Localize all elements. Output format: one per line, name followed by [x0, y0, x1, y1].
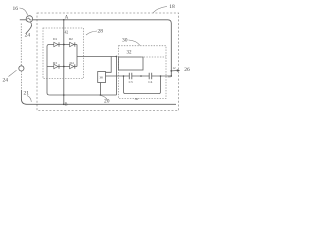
junction dot top row	[63, 44, 65, 46]
svg-text:42: 42	[65, 31, 69, 35]
svg-text:32: 32	[127, 51, 133, 56]
caps row wire	[106, 75, 172, 77]
svg-text:D3: D3	[53, 61, 57, 65]
dashed left conductor 24	[20, 24, 22, 66]
svg-text:D4: D4	[70, 61, 74, 65]
wire stub left of terminal	[20, 19, 26, 21]
svg-text:38: 38	[99, 76, 103, 80]
svg-text:21: 21	[24, 91, 30, 97]
junction dot on return wire	[63, 94, 65, 96]
top wire from terminal to right side, down to output	[33, 20, 172, 76]
svg-text:C3: C3	[129, 80, 133, 84]
svg-text:28: 28	[98, 29, 104, 35]
output lead with arrow 26	[171, 70, 177, 72]
leader for 21	[27, 96, 31, 102]
leader for 16	[20, 8, 28, 15]
diode D4	[70, 64, 74, 68]
return loop below filter caps	[124, 76, 161, 94]
leader for 28	[86, 31, 97, 35]
wire from small box top to mid tap	[106, 57, 112, 73]
vertical wire right of rectifier	[116, 57, 118, 96]
svg-text:26: 26	[184, 67, 190, 73]
AC input terminal circle 16	[26, 16, 32, 22]
dashed partition line in box 30	[141, 56, 166, 58]
svg-text:A: A	[65, 15, 69, 20]
leader for lower-left label	[9, 70, 17, 76]
svg-text:C4: C4	[148, 80, 152, 84]
svg-text:B: B	[65, 102, 68, 107]
second terminal circle	[19, 66, 24, 71]
capacitor C4	[149, 73, 152, 79]
wire from small box bottom to return wire	[99, 83, 101, 96]
leader for 30	[129, 40, 141, 45]
sine mark inside terminal	[28, 18, 32, 20]
svg-text:24: 24	[25, 32, 31, 38]
svg-text:18: 18	[169, 4, 175, 10]
control block small box	[98, 72, 106, 83]
node A junction dot	[63, 19, 65, 21]
center vertical wire A to B	[63, 20, 65, 105]
junction dot tap	[160, 75, 162, 77]
svg-text:36: 36	[135, 97, 139, 101]
junction dot bottom row	[63, 66, 65, 68]
bridge bottom row wire	[47, 66, 77, 68]
arrowhead	[177, 69, 180, 72]
svg-text:16: 16	[13, 6, 19, 12]
diode D3	[54, 64, 58, 68]
inner dashed rectifier box 28	[43, 28, 84, 79]
bottom rail wire	[21, 90, 176, 104]
left conductor below terminal	[20, 71, 22, 90]
junction dot loop left	[123, 75, 125, 77]
junction dot output wire	[171, 75, 173, 77]
svg-text:D1: D1	[53, 37, 57, 41]
leader for 20	[101, 96, 107, 100]
bridge left branch	[47, 45, 49, 96]
solid box 32	[119, 57, 144, 70]
outer dashed enclosure 18	[37, 13, 179, 111]
junction dot mid tap	[116, 56, 118, 58]
svg-text:30: 30	[122, 38, 128, 44]
node B junction dot	[63, 103, 65, 105]
wire curve from terminal down to left conductor	[26, 22, 31, 33]
diode D2	[70, 42, 74, 46]
junction dot small box bottom	[100, 94, 102, 96]
bridge right branch	[76, 45, 78, 67]
capacitor C3	[129, 73, 132, 79]
output junction dot	[170, 70, 172, 72]
diode D1	[54, 42, 58, 46]
svg-text:20: 20	[104, 99, 110, 105]
mid tap wire from right branch	[77, 56, 117, 58]
svg-text:12: 12	[173, 66, 177, 70]
dashed box 30	[119, 46, 167, 99]
leader for 18	[153, 7, 167, 13]
return wire bottom	[49, 94, 116, 96]
svg-text:36: 36	[168, 74, 172, 78]
svg-text:D2: D2	[69, 37, 73, 41]
junction dot loop right top	[140, 75, 142, 77]
svg-text:24: 24	[3, 78, 9, 84]
bridge top row wire	[49, 44, 77, 46]
